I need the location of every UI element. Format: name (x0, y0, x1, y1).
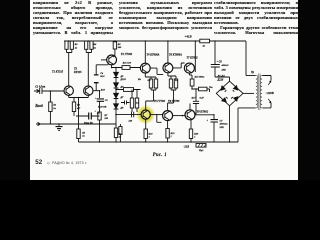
svg-text:50,0×6В: 50,0×6В (98, 105, 107, 108)
svg-text:4к: 4к (202, 45, 206, 48)
svg-text:0,4: 0,4 (175, 79, 179, 82)
svg-text:+41В: +41В (185, 35, 192, 39)
svg-text:Кд: Кд (137, 78, 142, 81)
svg-text:70к: 70к (209, 86, 213, 89)
svg-text:Т8 КТ802: Т8 КТ802 (197, 111, 209, 114)
svg-text:240: 240 (117, 46, 122, 49)
svg-text:50мк 6В: 50мк 6В (84, 122, 93, 125)
svg-text:Т2 ГТ402: Т2 ГТ402 (121, 53, 133, 56)
svg-text:Т6 ГТ705: Т6 ГТ705 (168, 100, 180, 103)
svg-text:R15 680м: R15 680м (195, 76, 205, 79)
svg-text:Т6 КТ806А: Т6 КТ806А (169, 53, 182, 56)
svg-text:1: 1 (171, 135, 172, 138)
svg-text:Пр1: Пр1 (198, 149, 203, 152)
svg-text:1: 1 (194, 136, 195, 139)
svg-text:0,4: 0,4 (148, 79, 152, 82)
svg-text:Рис. 1: Рис. 1 (153, 153, 167, 158)
svg-text:Т1 КТ315: Т1 КТ315 (52, 71, 64, 74)
svg-text:R11 510: R11 510 (123, 61, 132, 64)
svg-text:Тр: Тр (251, 71, 255, 74)
svg-text:50,0: 50,0 (100, 75, 105, 78)
svg-text:1к: 1к (119, 136, 122, 139)
svg-text:1к: 1к (82, 135, 85, 138)
svg-text:КТ315: КТ315 (73, 71, 82, 74)
svg-text:4000,0: 4000,0 (221, 64, 230, 67)
svg-text:Т4 КТ806А: Т4 КТ806А (147, 53, 160, 56)
svg-text:25В: 25В (221, 69, 227, 72)
svg-text:Д226: Д226 (217, 78, 224, 81)
svg-text:1к: 1к (75, 46, 78, 49)
svg-text:0,47: 0,47 (200, 97, 205, 100)
svg-text:1к: 1к (93, 46, 96, 49)
svg-text:Д8: Д8 (120, 107, 125, 110)
svg-text:Д7: Д7 (120, 96, 125, 99)
svg-text:С1 0,5мк: С1 0,5мк (35, 85, 46, 88)
svg-text:+: + (207, 120, 209, 123)
svg-text:240: 240 (128, 119, 133, 122)
svg-text:-21В: -21В (183, 146, 189, 149)
svg-text:Д223: Д223 (120, 78, 127, 81)
svg-text:R10: R10 (101, 88, 106, 91)
svg-text:160: 160 (104, 117, 108, 120)
svg-text:~220В: ~220В (266, 91, 274, 95)
svg-text:1: 1 (149, 136, 150, 139)
svg-text:Вход: Вход (34, 104, 43, 108)
svg-text:1к: 1к (53, 107, 56, 110)
svg-text:25В: 25В (219, 126, 225, 129)
svg-text:С3: С3 (105, 99, 109, 102)
svg-text:Т5 ГТ703: Т5 ГТ703 (154, 100, 166, 103)
svg-text:5,6: 5,6 (136, 102, 140, 105)
svg-text:4,7: 4,7 (76, 107, 81, 110)
svg-text:Т7 КТ802: Т7 КТ802 (187, 57, 199, 60)
